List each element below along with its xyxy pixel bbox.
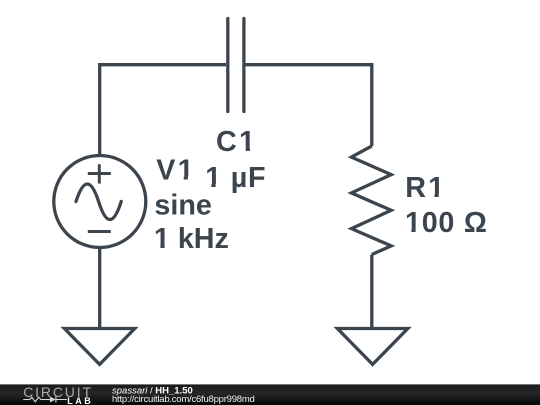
svg-text:LAB: LAB <box>67 396 91 405</box>
svg-text:sine: sine <box>154 190 211 222</box>
svg-text:R1: R1 <box>405 172 446 204</box>
wire V1 bottom to ground <box>98 249 101 329</box>
svg-text:100 Ω: 100 Ω <box>405 207 488 239</box>
wire top-right from C1 right plate to R1 top <box>245 65 372 146</box>
svg-text:http://circuitlab.com/c6fu8ppr: http://circuitlab.com/c6fu8ppr998md <box>112 394 255 405</box>
ground (right) <box>337 329 407 365</box>
svg-text:C1: C1 <box>216 126 257 158</box>
resistor R1 <box>351 146 391 255</box>
svg-text:V1: V1 <box>156 155 196 187</box>
ground (left) <box>64 329 134 365</box>
svg-text:1 kHz: 1 kHz <box>154 223 229 255</box>
capacitor C1 <box>228 19 244 112</box>
svg-text:1 µF: 1 µF <box>205 162 266 194</box>
voltage source V1 <box>54 156 146 248</box>
logo circuit glyph: wire, resistor zigzag, diode, wire <box>23 397 67 403</box>
wire top-left from V1 top to C1 left plate <box>100 65 226 155</box>
wire R1 bottom to ground <box>370 255 373 329</box>
